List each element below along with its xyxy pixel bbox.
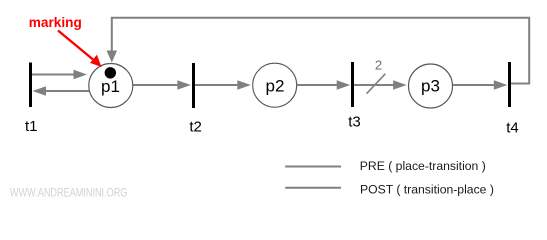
svg-text:WWW.ANDREAMININI.ORG: WWW.ANDREAMININI.ORG bbox=[10, 185, 128, 199]
place p1 bbox=[89, 64, 133, 108]
transition t3 bbox=[351, 62, 354, 107]
place p2 bbox=[253, 63, 297, 107]
svg-text:t3: t3 bbox=[348, 114, 361, 131]
svg-text:t4: t4 bbox=[506, 120, 519, 137]
wire p3 to t4 (arrow) bbox=[453, 80, 508, 89]
svg-text:p1: p1 bbox=[101, 77, 120, 96]
svg-text:marking: marking bbox=[29, 15, 82, 30]
svg-text:PRE ( place-transition ): PRE ( place-transition ) bbox=[360, 159, 486, 173]
svg-text:t1: t1 bbox=[25, 118, 38, 135]
wire p1 to t1 (arrow) bbox=[33, 86, 90, 95]
legend POST line bbox=[285, 187, 341, 189]
legend PRE line bbox=[285, 166, 341, 168]
wire p1 to t2 (arrow) bbox=[133, 80, 191, 89]
marking pointer arrow (red) bbox=[58, 31, 102, 68]
svg-text:p3: p3 bbox=[421, 77, 440, 96]
place p3 bbox=[409, 64, 453, 108]
transition t4 bbox=[508, 62, 511, 107]
transition t1 bbox=[29, 63, 32, 108]
svg-text:2: 2 bbox=[375, 58, 382, 73]
token in p1 bbox=[105, 67, 116, 78]
wire t4 to p1 (feedback arc) bbox=[107, 18, 530, 84]
svg-text:t2: t2 bbox=[189, 119, 202, 136]
transition t2 bbox=[192, 63, 195, 108]
svg-text:POST ( transition-place ): POST ( transition-place ) bbox=[360, 183, 494, 197]
svg-text:p2: p2 bbox=[266, 76, 285, 95]
wire t3 to p3 (arrow, weight 2) bbox=[354, 80, 407, 89]
arc weight slash bbox=[367, 74, 386, 94]
wire p2 to t3 (arrow) bbox=[297, 80, 350, 89]
wire t1 to p1 (arrow) bbox=[32, 70, 88, 79]
wire t2 to p2 (arrow) bbox=[195, 80, 251, 89]
